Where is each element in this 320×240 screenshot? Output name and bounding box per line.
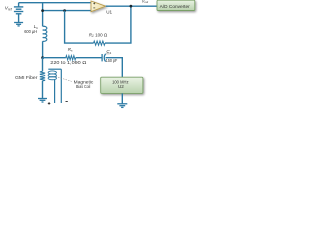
wire: inverting input wire	[43, 10, 92, 12]
node junction dot at inverting wire x=42.6	[41, 9, 44, 12]
wire: top wire from battery to op-amp noninverting input	[19, 2, 92, 4]
battery V_ref cell plates	[14, 7, 23, 14]
svg-text:150 pF: 150 pF	[106, 58, 118, 63]
node output junction dot	[130, 5, 133, 8]
svg-text:Bias Coil: Bias Coil	[76, 84, 90, 89]
svg-text:Vout: Vout	[142, 0, 149, 4]
svg-text:U1: U1	[106, 10, 112, 15]
wire: bias coil right lead (-)	[60, 69, 62, 103]
label plus terminal	[48, 102, 51, 105]
A/D converter box	[157, 0, 195, 10]
svg-text:Rs: Rs	[68, 47, 73, 53]
wire: inductor bottom down to lower row	[42, 41, 44, 57]
magnetic bias coil turns	[48, 71, 56, 74]
node junction dot at lower row left	[41, 56, 44, 59]
op-amp minus input mark	[93, 7, 95, 9]
wire: lower row left segment	[43, 57, 66, 59]
svg-text:Vref: Vref	[5, 6, 13, 12]
wire: op-amp output to A/D converter	[106, 5, 158, 7]
svg-text:U2: U2	[118, 84, 124, 89]
label minus terminal	[66, 101, 68, 103]
wire: lower row middle segment to capacitor	[76, 57, 102, 59]
ground under battery	[14, 23, 23, 26]
ground under U2	[117, 104, 127, 108]
wire: GMI fiber branch down from lower row	[42, 58, 44, 72]
svg-text:GMI Fiber: GMI Fiber	[15, 75, 38, 80]
resistor GMI fiber vertical zigzag	[40, 71, 45, 81]
leader dashed line to bias coil label	[56, 77, 72, 82]
oscillator box U2 100 MHz	[101, 77, 143, 93]
ground under GMI fiber	[38, 99, 47, 103]
svg-text:R1 100 Ω: R1 100 Ω	[89, 32, 108, 38]
op-amp plus input mark	[93, 3, 95, 5]
resistor R1 zigzag	[94, 41, 106, 45]
capacitor C1 curved plate	[104, 54, 105, 62]
wire: lower row right segment, corner down to U2	[106, 58, 123, 77]
svg-text:220 to 1,090 Ω: 220 to 1,090 Ω	[50, 60, 87, 65]
capacitor C1 flat plate	[101, 54, 103, 61]
inductor Lb coil	[43, 26, 47, 41]
magnetic bias coil top bar	[48, 68, 61, 70]
op-amp U1	[91, 1, 106, 12]
resistor Rs zigzag	[66, 56, 76, 60]
wire: vertical from top wire down to inductor	[42, 3, 44, 27]
wire: R1 row right segment up to output node	[105, 6, 131, 43]
node junction dot at inverting wire x=64.6	[63, 9, 66, 12]
wire: battery top stub	[18, 3, 20, 7]
underline below C1	[106, 53, 110, 55]
wire: bias coil left lead (+)	[54, 80, 56, 104]
wire: U2 bottom lead to ground	[121, 93, 123, 103]
wire: feedback branch down from node to R1 row	[65, 11, 94, 44]
svg-text:600 µH: 600 µH	[24, 29, 37, 34]
wire: battery bottom lead	[18, 14, 20, 23]
wire: GMI fiber bottom to ground	[42, 81, 44, 99]
svg-text:A/D Converter: A/D Converter	[160, 4, 190, 9]
